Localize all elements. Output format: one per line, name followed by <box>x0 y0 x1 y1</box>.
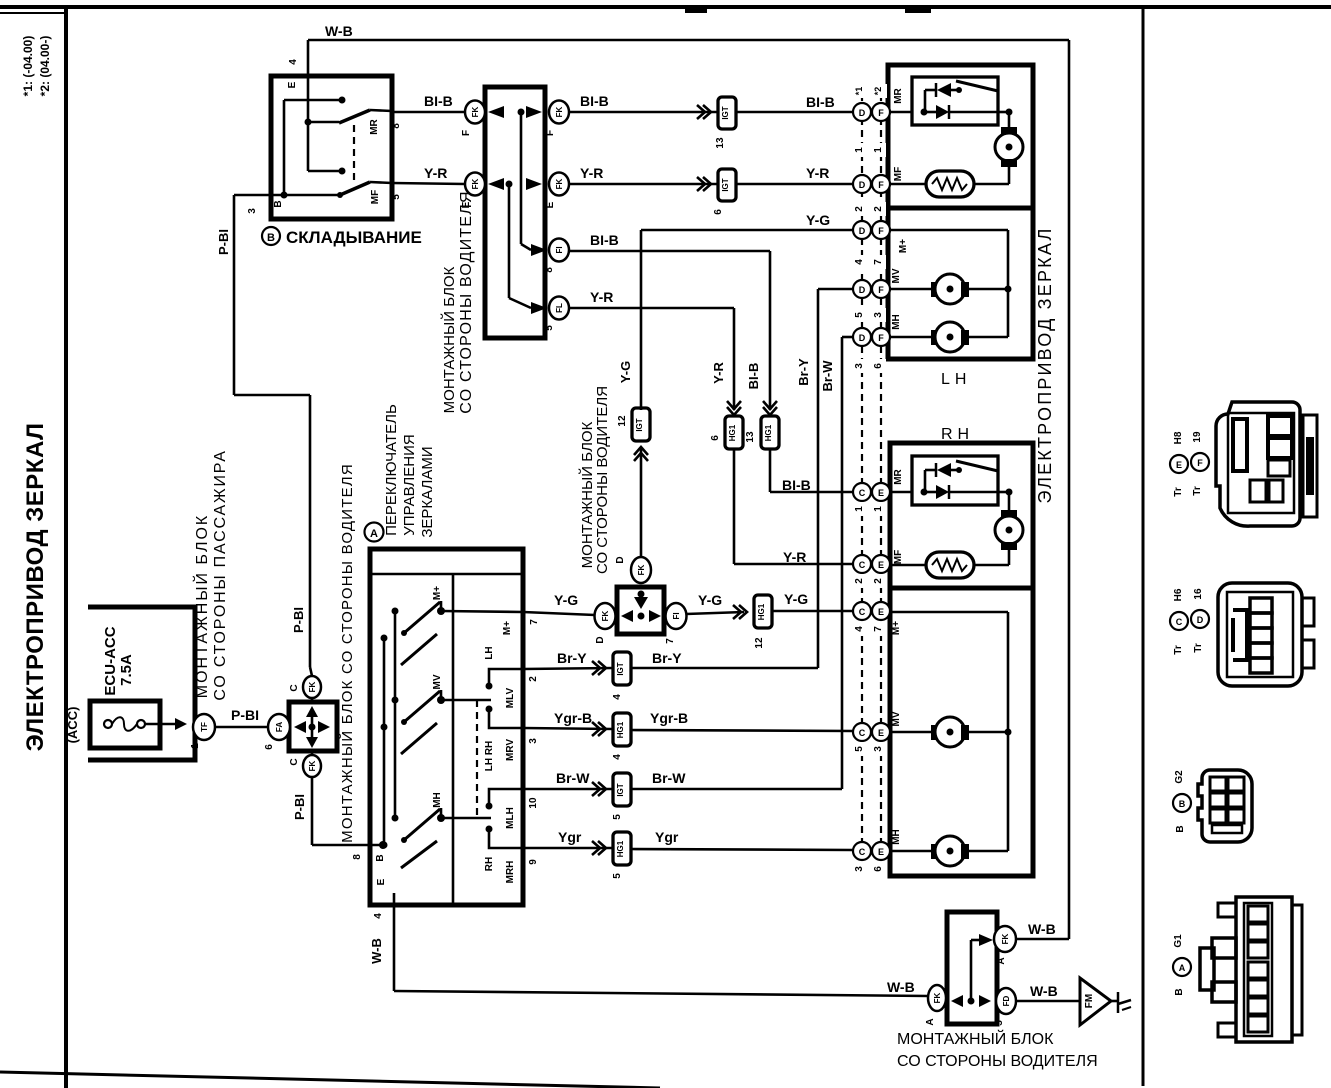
svg-text:HG1: HG1 <box>757 603 766 620</box>
svg-text:IGT: IGT <box>635 418 644 431</box>
svg-text:FK: FK <box>1001 933 1010 944</box>
svg-text:E: E <box>461 201 472 208</box>
svg-text:D: D <box>859 180 866 190</box>
svg-text:Ygr-B: Ygr-B <box>650 710 688 726</box>
wire P-BI from fold switch <box>216 195 310 667</box>
connector FK top-right <box>994 926 1016 965</box>
LH MV motor <box>890 268 1008 304</box>
svg-text:Y-G: Y-G <box>806 212 830 228</box>
svg-text:1: 1 <box>873 147 884 153</box>
svg-text:B: B <box>1175 825 1186 832</box>
wire P-BI fuse to FA <box>215 707 268 727</box>
label МОНТАЖНЫЙ БЛОК СО СТОРОНЫ ВОДИТЕЛЯ (bottom) <box>897 1029 1098 1070</box>
svg-text:F: F <box>878 285 884 295</box>
svg-text:D: D <box>1197 615 1204 625</box>
switch output pin numbers <box>528 676 539 865</box>
svg-text:W-B: W-B <box>1028 921 1056 937</box>
connector IGT row 112 <box>715 97 736 149</box>
junction block 1 internal arrows row E <box>488 178 547 314</box>
wire Y-G vertical from corner to FK <box>617 230 650 557</box>
wire BI-B row 112 to IGT <box>569 93 718 112</box>
FA block internal arrows <box>294 706 330 748</box>
connector drawing H6/16 labels <box>1170 588 1209 655</box>
svg-text:7: 7 <box>529 619 540 625</box>
wire Y-R from FL via HG1 down to RH MF <box>569 289 853 565</box>
svg-text:FD: FD <box>1002 995 1011 1006</box>
svg-text:B: B <box>375 854 386 861</box>
RH MV motor <box>890 711 1008 747</box>
fold switch B box СКЛАДЫВАНИЕ <box>271 76 392 219</box>
connector FK left top <box>461 101 485 137</box>
svg-text:Ygr-B: Ygr-B <box>554 710 592 726</box>
mirror control switch box <box>370 549 523 905</box>
svg-text:2: 2 <box>854 578 865 584</box>
svg-text:19: 19 <box>1192 431 1203 443</box>
svg-text:C: C <box>859 847 866 857</box>
svg-text:FI: FI <box>555 246 564 253</box>
svg-text:СО СТОРОНЫ ВОДИТЕЛЯ: СО СТОРОНЫ ВОДИТЕЛЯ <box>458 190 475 413</box>
svg-text:HG1: HG1 <box>616 721 625 738</box>
svg-text:ПЕРЕКЛЮЧАТЕЛЬ: ПЕРЕКЛЮЧАТЕЛЬ <box>383 404 400 536</box>
switch common rail 2 <box>383 638 386 845</box>
svg-text:A: A <box>925 1018 936 1025</box>
svg-text:3: 3 <box>854 866 865 872</box>
svg-text:IGT: IGT <box>721 178 730 191</box>
connector FA oval <box>264 714 290 750</box>
svg-text:4: 4 <box>854 626 865 632</box>
svg-text:FK: FK <box>308 681 317 692</box>
svg-text:MH: MH <box>432 792 443 808</box>
svg-text:МОНТАЖНЫЙ БЛОК: МОНТАЖНЫЙ БЛОК <box>897 1029 1054 1048</box>
svg-text:MR: MR <box>893 468 904 484</box>
svg-text:1: 1 <box>854 506 865 512</box>
connector drawing G2 body <box>1198 770 1252 842</box>
RH fold relay box <box>912 456 998 505</box>
svg-text:HG1: HG1 <box>616 840 625 857</box>
svg-text:HG1: HG1 <box>764 424 773 441</box>
svg-text:ECU-ACC: ECU-ACC <box>102 626 119 695</box>
svg-text:Y-R: Y-R <box>580 165 603 181</box>
svg-text:Y-R: Y-R <box>424 165 447 181</box>
svg-text:P-BI: P-BI <box>231 707 259 723</box>
dashed net column F/E <box>880 94 882 845</box>
svg-text:LH: LH <box>941 371 971 388</box>
svg-text:8: 8 <box>544 267 555 273</box>
svg-text:A: A <box>1179 963 1186 973</box>
svg-text:MH: MH <box>891 829 902 845</box>
svg-text:6: 6 <box>710 435 721 441</box>
svg-text:MRV: MRV <box>505 739 516 761</box>
wire Ygr-B row <box>523 710 853 760</box>
svg-text:*1: (-04.00): *1: (-04.00) <box>21 36 35 97</box>
svg-text:УПРАВЛЕНИЯ: УПРАВЛЕНИЯ <box>401 434 418 535</box>
switch E pin <box>373 878 394 918</box>
svg-text:W-B: W-B <box>325 23 353 39</box>
border frame right <box>1142 5 1145 1086</box>
driver side junction block 1 <box>485 87 545 338</box>
driver side junction block 2 (Y-G) <box>595 556 687 643</box>
LH fold relay box <box>912 77 998 125</box>
svg-text:5: 5 <box>544 325 555 331</box>
wire Ygr row <box>523 829 853 879</box>
svg-text:Tr: Tr <box>1173 645 1184 655</box>
svg-text:M+: M+ <box>432 586 443 600</box>
svg-text:F: F <box>878 108 884 118</box>
node circles C column RH <box>853 483 871 860</box>
svg-text:HG1: HG1 <box>728 424 737 441</box>
FM ground triangle <box>1080 978 1111 1025</box>
svg-text:C: C <box>859 488 866 498</box>
svg-text:4: 4 <box>373 913 384 919</box>
svg-text:2: 2 <box>854 206 865 212</box>
svg-text:7: 7 <box>665 638 676 644</box>
svg-text:ЭЛЕКТРОПРИВОД ЗЕРКАЛ: ЭЛЕКТРОПРИВОД ЗЕРКАЛ <box>22 423 49 752</box>
svg-text:5: 5 <box>854 312 865 318</box>
switch M+ output wire <box>441 611 523 612</box>
svg-text:ЗЕРКАЛАМИ: ЗЕРКАЛАМИ <box>419 446 436 537</box>
wire Y-G block2 to HG1 to RH M+ <box>686 591 853 649</box>
svg-text:Y-R: Y-R <box>783 549 806 565</box>
svg-text:MV: MV <box>891 711 902 726</box>
chevrons into IGT row 112 <box>697 105 711 119</box>
LH M+ bus <box>890 230 1012 337</box>
switch MLH lead <box>486 789 524 810</box>
svg-text:6: 6 <box>264 744 275 750</box>
svg-text:16: 16 <box>1193 588 1204 600</box>
svg-text:B: B <box>273 200 284 207</box>
svg-text:Y-G: Y-G <box>554 592 578 608</box>
wire P-BI down to switch B <box>292 777 383 845</box>
svg-text:W-B: W-B <box>1030 983 1058 999</box>
switch MRV lead <box>486 706 524 729</box>
connector FK left bottom <box>461 173 485 209</box>
arrow into TF <box>175 718 187 730</box>
svg-text:E: E <box>1176 460 1182 470</box>
svg-text:MLH: MLH <box>505 807 516 829</box>
svg-text:RH: RH <box>941 426 974 443</box>
svg-text:2: 2 <box>873 578 884 584</box>
svg-text:5: 5 <box>391 194 402 200</box>
wire BI-B from FI via HG1 down to RH MR <box>569 232 853 493</box>
svg-text:МОНТАЖНЫЙ БЛОК: МОНТАЖНЫЙ БЛОК <box>192 514 211 698</box>
border frame bottom (skewed scan line) <box>0 1072 660 1088</box>
svg-text:C: C <box>1176 617 1183 627</box>
connector IGT row 184 <box>713 169 736 215</box>
svg-text:*2: (04.00-): *2: (04.00-) <box>38 36 52 97</box>
svg-text:1: 1 <box>854 147 865 153</box>
svg-text:СО СТОРОНЫ ПАССАЖИРА: СО СТОРОНЫ ПАССАЖИРА <box>212 449 229 700</box>
svg-text:C: C <box>289 684 300 691</box>
fold switch MR arm <box>339 110 392 135</box>
svg-text:7: 7 <box>873 259 884 265</box>
svg-text:FA: FA <box>275 722 284 732</box>
svg-text:FK: FK <box>601 610 610 621</box>
svg-text:E: E <box>878 847 884 857</box>
svg-text:Y-G: Y-G <box>698 592 722 608</box>
svg-text:3: 3 <box>528 738 539 744</box>
junction block 3 internal arrows <box>951 934 993 1007</box>
svg-text:Ygr: Ygr <box>655 829 679 845</box>
connector drawing G2 labels <box>1173 770 1191 833</box>
svg-text:C: C <box>859 607 866 617</box>
connector FL right <box>544 297 569 331</box>
svg-text:7: 7 <box>873 626 884 632</box>
switch B pin <box>352 841 387 862</box>
svg-text:E: E <box>545 201 556 208</box>
wire Y-R fold to junction <box>392 165 465 184</box>
svg-text:Br-W: Br-W <box>820 360 835 392</box>
wire Y-R row 184 to IGT <box>569 165 718 184</box>
svg-text:MF: MF <box>893 167 904 181</box>
wire W-B top rail <box>308 23 1069 939</box>
svg-text:4: 4 <box>288 59 299 65</box>
connector FK right top <box>545 101 569 137</box>
svg-text:G1: G1 <box>1173 934 1184 948</box>
RH fold motor <box>995 489 1023 566</box>
svg-text:4: 4 <box>612 754 623 760</box>
svg-text:MV: MV <box>432 674 443 689</box>
svg-text:H8: H8 <box>1173 431 1184 444</box>
svg-text:LH RH: LH RH <box>484 741 495 772</box>
node circles F column LH <box>872 103 890 346</box>
svg-text:F: F <box>878 180 884 190</box>
connector FK above FA block <box>289 667 321 702</box>
svg-text:F: F <box>1197 458 1203 468</box>
svg-text:Br-W: Br-W <box>556 770 590 786</box>
svg-text:ЭЛЕКТРОПРИВОД ЗЕРКАЛ: ЭЛЕКТРОПРИВОД ЗЕРКАЛ <box>1035 227 1055 504</box>
svg-text:E: E <box>878 560 884 570</box>
svg-text:W-B: W-B <box>887 979 915 995</box>
svg-text:(ACC): (ACC) <box>65 707 80 744</box>
svg-text:MF: MF <box>893 550 904 564</box>
svg-text:13: 13 <box>745 431 756 443</box>
svg-text:IGT: IGT <box>616 783 625 796</box>
svg-text:LH: LH <box>484 646 495 659</box>
fold switch upper fixed contact <box>284 97 346 196</box>
pin numbers along dashed columns <box>854 84 887 876</box>
svg-text:C: C <box>859 728 866 738</box>
svg-text:*2: *2 <box>873 87 883 96</box>
connector drawing H8/19 labels <box>1170 431 1209 497</box>
svg-text:RH: RH <box>484 857 495 871</box>
junction block FA box <box>289 702 337 751</box>
LH relay internals: diodes and arm <box>890 81 998 119</box>
svg-text:СО СТОРОНЫ ВОДИТЕЛЯ: СО СТОРОНЫ ВОДИТЕЛЯ <box>897 1053 1098 1070</box>
svg-text:FK: FK <box>933 992 942 1003</box>
svg-text:4: 4 <box>612 694 623 700</box>
svg-text:B: B <box>267 232 275 244</box>
svg-text:FL: FL <box>555 303 564 313</box>
svg-text:8: 8 <box>391 123 402 129</box>
svg-text:*1: *1 <box>854 87 864 96</box>
svg-text:BI-B: BI-B <box>782 477 811 493</box>
switch MH contacts <box>381 792 446 868</box>
svg-text:E: E <box>376 878 387 885</box>
svg-text:M+: M+ <box>898 239 909 253</box>
wire W-B from switch E to bottom block <box>369 905 929 996</box>
svg-text:FI: FI <box>672 612 681 619</box>
node circles D column LH <box>853 103 871 346</box>
svg-text:E: E <box>878 728 884 738</box>
svg-text:12: 12 <box>617 415 628 427</box>
svg-text:Y-R: Y-R <box>590 289 613 305</box>
svg-text:МОНТАЖНЫЙ БЛОК: МОНТАЖНЫЙ БЛОК <box>440 266 458 413</box>
svg-text:IGT: IGT <box>616 662 625 675</box>
svg-text:2: 2 <box>528 676 539 682</box>
svg-text:6: 6 <box>713 209 724 215</box>
svg-text:Tr: Tr <box>1173 487 1184 497</box>
connector drawing H6/16 body <box>1218 583 1314 686</box>
svg-text:MRH: MRH <box>505 861 516 884</box>
svg-text:P-BI: P-BI <box>216 229 231 255</box>
LH MH motor <box>890 314 1008 352</box>
wire Y-G switch to block2 <box>523 592 595 625</box>
svg-text:BI-B: BI-B <box>746 363 761 390</box>
driver side junction block 3 (bottom) <box>947 912 997 1024</box>
connector FK bottom-left <box>925 985 946 1026</box>
switch MLV lead <box>486 669 524 690</box>
RH mirror assembly box <box>890 443 1033 876</box>
svg-text:FM: FM <box>1084 994 1095 1008</box>
svg-text:MR: MR <box>893 87 904 103</box>
fuse ECU-ACC 7.5A box <box>90 701 160 748</box>
switch common rail 1 <box>394 611 397 818</box>
svg-text:5: 5 <box>994 1020 1005 1026</box>
svg-text:9: 9 <box>528 859 539 865</box>
svg-text:H6: H6 <box>1173 588 1184 601</box>
LH fold motor <box>995 109 1023 185</box>
svg-text:7.5A: 7.5A <box>118 654 135 686</box>
svg-text:D: D <box>615 556 626 563</box>
wire W-B block3 to ground amp <box>1016 983 1080 1001</box>
svg-text:A: A <box>996 957 1007 964</box>
switch mechanical link dashed <box>476 700 478 818</box>
svg-text:A: A <box>370 528 378 540</box>
LH mirror assembly box <box>888 65 1033 359</box>
svg-text:BI-B: BI-B <box>580 93 609 109</box>
fuse element <box>104 717 175 731</box>
fold switch lower fixed contact (E side) <box>308 122 346 175</box>
svg-text:F: F <box>878 226 884 236</box>
svg-text:3: 3 <box>247 208 258 214</box>
fold switch internal E lead <box>305 76 340 126</box>
border frame top <box>0 5 1331 9</box>
switch MH output wire <box>441 817 491 820</box>
LH divider <box>888 206 1033 211</box>
svg-text:3: 3 <box>854 363 865 369</box>
connector drawing G1 body <box>1200 897 1302 1042</box>
connector drawing H8/19 body <box>1216 402 1317 526</box>
RH M+ bus <box>890 612 1012 851</box>
wire Br-Y row <box>523 289 853 700</box>
svg-text:D: D <box>859 108 866 118</box>
svg-text:P-BI: P-BI <box>292 794 307 820</box>
RH divider <box>890 586 1033 591</box>
switch M+ contacts <box>381 586 446 665</box>
svg-text:MLV: MLV <box>505 687 516 708</box>
wire W-B block3 to right rail <box>1016 921 1069 939</box>
junction block 1 internal arrows row F <box>488 106 547 256</box>
svg-text:МОНТАЖНЫЙ БЛОК СО СТОРОНЫ ВОДИ: МОНТАЖНЫЙ БЛОК СО СТОРОНЫ ВОДИТЕЛЯ <box>338 463 356 843</box>
svg-text:B: B <box>1179 799 1186 809</box>
svg-text:Tr: Tr <box>1193 643 1204 653</box>
svg-text:C: C <box>289 758 300 765</box>
LH MF resistor <box>890 167 1009 197</box>
svg-text:FK: FK <box>555 106 564 117</box>
svg-text:BI-B: BI-B <box>424 93 453 109</box>
svg-text:C: C <box>859 560 866 570</box>
svg-text:6: 6 <box>873 866 884 872</box>
switch MV contacts <box>381 674 446 754</box>
svg-text:СО СТОРОНЫ ВОДИТЕЛЯ: СО СТОРОНЫ ВОДИТЕЛЯ <box>594 386 611 574</box>
svg-text:Br-W: Br-W <box>652 770 686 786</box>
svg-text:G2: G2 <box>1174 770 1185 784</box>
dashed net column D/C <box>861 94 863 845</box>
border frame left <box>64 5 68 1088</box>
connector FK below FA block <box>289 751 321 777</box>
svg-text:W-B: W-B <box>369 938 384 964</box>
fold switch mechanical link dashed <box>353 125 355 182</box>
svg-text:M+: M+ <box>502 621 513 635</box>
svg-text:D: D <box>859 285 866 295</box>
svg-text:E: E <box>878 488 884 498</box>
svg-text:FK: FK <box>471 106 480 117</box>
svg-text:10: 10 <box>528 797 539 809</box>
svg-text:FK: FK <box>471 178 480 189</box>
passenger junction block outline <box>88 607 195 760</box>
RH relay internals: diodes and arm <box>890 461 998 499</box>
svg-text:E: E <box>287 81 298 88</box>
svg-text:M+: M+ <box>891 621 902 635</box>
svg-text:Y-G: Y-G <box>618 361 633 383</box>
svg-text:Y-R: Y-R <box>711 362 726 384</box>
svg-text:D: D <box>859 333 866 343</box>
svg-text:2: 2 <box>873 206 884 212</box>
wire BI-B IGT to D circle <box>736 94 853 112</box>
svg-text:D: D <box>595 636 606 643</box>
svg-text:12: 12 <box>754 637 765 649</box>
connector TF oval <box>190 714 215 749</box>
svg-text:IGT: IGT <box>721 106 730 119</box>
svg-text:FK: FK <box>308 760 317 771</box>
wire Br-W row <box>523 337 853 820</box>
switch section labels <box>484 621 516 884</box>
wire Y-R IGT to D circle <box>736 165 853 184</box>
wire BI-B fold to junction <box>392 93 465 112</box>
svg-text:B: B <box>1174 988 1185 995</box>
svg-text:5: 5 <box>854 746 865 752</box>
label A ПЕРЕКЛЮЧАТЕЛЬ УПРАВЛЕНИЯ ЗЕРКАЛАМИ <box>365 404 437 542</box>
label B СКЛАДЫВАНИЕ <box>262 227 422 247</box>
svg-text:3: 3 <box>873 746 884 752</box>
switch MV output wire <box>441 699 491 702</box>
svg-text:Br-Y: Br-Y <box>652 650 682 666</box>
RH MF resistor <box>890 550 1009 578</box>
connector FI right <box>544 239 569 273</box>
svg-text:3: 3 <box>873 312 884 318</box>
connector FK right second <box>545 173 569 209</box>
svg-text:BI-B: BI-B <box>590 232 619 248</box>
svg-text:F: F <box>878 333 884 343</box>
chevrons into IGT row 184 <box>697 177 711 191</box>
svg-text:СКЛАДЫВАНИЕ: СКЛАДЫВАНИЕ <box>286 228 422 247</box>
svg-text:F: F <box>545 130 556 136</box>
svg-text:BI-B: BI-B <box>806 94 835 110</box>
svg-text:Y-G: Y-G <box>784 591 808 607</box>
svg-text:13: 13 <box>715 137 726 149</box>
svg-text:E: E <box>878 607 884 617</box>
svg-text:6: 6 <box>873 363 884 369</box>
